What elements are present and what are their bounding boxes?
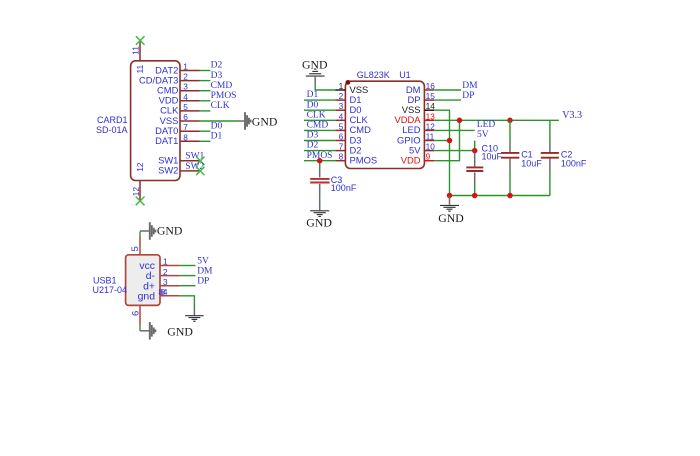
- svg-text:6: 6: [183, 112, 188, 122]
- svg-text:6: 6: [339, 132, 344, 142]
- wire net V3.3 from U1 pin 13: [434, 119, 559, 121]
- svg-text:CMD: CMD: [211, 81, 233, 91]
- CARD1 pin 5 stub: [180, 110, 200, 112]
- svg-text:5: 5: [130, 246, 141, 251]
- USB1 pin 5 stub (top): [139, 236, 141, 255]
- wire ground rail: [450, 195, 550, 197]
- wire net PMOS at CARD1 pin 4: [200, 100, 211, 102]
- svg-text:10: 10: [426, 142, 436, 152]
- U1 pin 11 stub: [424, 140, 434, 142]
- svg-text:7: 7: [183, 122, 188, 132]
- svg-text:100nF: 100nF: [561, 159, 587, 169]
- wire net 5V: [180, 265, 196, 267]
- pin 12 stub (bottom): [139, 181, 141, 201]
- svg-text:DM: DM: [197, 267, 213, 277]
- svg-text:6: 6: [131, 311, 142, 316]
- svg-text:12: 12: [135, 162, 145, 172]
- wire net PMOS at U1 pin 8: [304, 160, 335, 162]
- CARD1 pin 7 stub: [180, 130, 200, 132]
- svg-text:12: 12: [131, 187, 141, 197]
- U1 pin 9 stub: [424, 160, 434, 162]
- wire USB1 pin 5 to GND: [139, 231, 141, 235]
- wire net D2 at CARD1 pin 1: [200, 70, 211, 72]
- U1 pin 3 stub: [335, 109, 345, 111]
- svg-text:LED: LED: [477, 120, 496, 130]
- junction node rail/C10: [472, 193, 478, 199]
- svg-text:GND: GND: [306, 216, 332, 230]
- U1 pin 16 stub: [424, 89, 434, 91]
- wire net D3 at U1 pin 6: [304, 140, 335, 142]
- capacitor C3: [319, 163, 321, 177]
- SD card connector CARD1 body: [131, 61, 180, 181]
- svg-text:D1: D1: [307, 90, 319, 100]
- svg-text:7: 7: [339, 142, 344, 152]
- svg-text:D2: D2: [307, 141, 319, 151]
- wire net DM: [434, 89, 461, 91]
- svg-text:3: 3: [183, 82, 188, 92]
- U1 pin-1 marker dot: [346, 80, 351, 85]
- svg-text:D0: D0: [211, 121, 223, 131]
- USB1 pin 3 stub: [160, 285, 180, 287]
- wire USB1 pin 4 to ground: [180, 296, 195, 306]
- svg-text:DM: DM: [462, 81, 478, 91]
- wire net CMD at U1 pin 5: [304, 129, 335, 131]
- wire net DP: [434, 99, 461, 101]
- wire net DP: [180, 285, 196, 287]
- wire net DM: [180, 275, 196, 277]
- wire net D0 at CARD1 pin 7: [200, 130, 211, 132]
- junction node rail/C1: [507, 193, 513, 199]
- U1 pin 1 stub: [335, 89, 345, 91]
- wire USB1 pin 6 to GND: [139, 326, 141, 331]
- svg-text:2: 2: [339, 91, 344, 101]
- svg-text:4: 4: [183, 92, 188, 102]
- svg-text:11: 11: [135, 65, 145, 74]
- wire net CLK at U1 pin 4: [304, 119, 335, 121]
- wire net D2 at U1 pin 7: [304, 150, 335, 152]
- svg-text:3: 3: [163, 277, 168, 287]
- USB1 pin 2 stub: [160, 275, 180, 277]
- U1 pin 10 stub: [424, 150, 434, 152]
- svg-text:PMOS: PMOS: [211, 91, 237, 101]
- wire net CLK at CARD1 pin 5: [200, 110, 211, 112]
- svg-text:10uF: 10uF: [521, 159, 542, 169]
- svg-text:U1: U1: [399, 70, 411, 80]
- svg-text:100nF: 100nF: [331, 183, 357, 193]
- ground GND (arrow style) below USB1: [149, 322, 151, 340]
- junction node rail/GND: [447, 193, 453, 199]
- CARD1 pin 2 stub: [180, 80, 200, 82]
- svg-text:5V: 5V: [197, 257, 209, 267]
- wire net CMD at CARD1 pin 3: [200, 90, 211, 92]
- CARD1 pin 6 stub: [180, 120, 200, 122]
- svg-text:CLK: CLK: [307, 110, 326, 120]
- svg-text:15: 15: [426, 91, 436, 101]
- svg-text:1: 1: [163, 257, 168, 267]
- svg-text:11: 11: [426, 132, 435, 142]
- svg-text:3: 3: [339, 101, 344, 111]
- wire net 5V at U1 pin 10: [434, 150, 474, 152]
- svg-text:DAT1: DAT1: [155, 135, 178, 146]
- U1 pin 13 stub: [424, 119, 434, 121]
- svg-text:GL823K: GL823K: [357, 70, 390, 80]
- wire stub to 5V label: [474, 141, 476, 151]
- CARD1 pin 1 stub: [180, 70, 200, 72]
- wire net LED: [434, 129, 474, 131]
- svg-text:DP: DP: [462, 91, 474, 101]
- no-connect X SW2: [196, 167, 204, 175]
- ground GND (arrow style) above USB1: [140, 230, 150, 232]
- wire C10 to ground rail: [474, 187, 476, 196]
- svg-text:14: 14: [426, 101, 436, 111]
- junction node GPIO/VSS: [447, 138, 453, 144]
- svg-text:5V: 5V: [477, 130, 489, 140]
- op-amp U1 body (GL823K): [345, 81, 424, 168]
- svg-text:CMD: CMD: [307, 121, 329, 131]
- wire C3 to ground: [319, 194, 321, 200]
- svg-text:8: 8: [339, 152, 344, 162]
- svg-text:GND: GND: [167, 325, 193, 339]
- no-connect X SW1: [196, 157, 204, 165]
- junction node PMOS/C3: [317, 158, 323, 164]
- wire net D3 at CARD1 pin 2: [200, 80, 211, 82]
- no-connect X pin 12: [136, 197, 145, 206]
- CARD1 pin 3 stub: [180, 90, 200, 92]
- wire net D1 at CARD1 pin 8: [200, 140, 211, 142]
- svg-text:4: 4: [339, 111, 344, 121]
- junction node 5V/C10: [472, 148, 478, 154]
- svg-text:SW2: SW2: [158, 165, 178, 176]
- svg-text:CLK: CLK: [211, 101, 230, 111]
- svg-text:9: 9: [426, 152, 431, 162]
- svg-text:5: 5: [183, 102, 188, 112]
- wire U1 pin 9 VDD to VDDA: [434, 120, 459, 160]
- wire U1 pin 14 VSS to ground rail: [434, 110, 449, 195]
- svg-text:PMOS: PMOS: [350, 155, 378, 166]
- svg-text:VDD: VDD: [401, 155, 421, 166]
- svg-text:gnd: gnd: [138, 291, 156, 302]
- U1 pin 8 stub: [335, 160, 345, 162]
- svg-text:2: 2: [183, 72, 188, 82]
- wire CARD1 pin 6 to GND: [200, 120, 238, 122]
- svg-text:D0: D0: [307, 100, 319, 110]
- ground GND below rail: [449, 196, 451, 205]
- svg-text:D1: D1: [211, 132, 223, 142]
- svg-text:GND: GND: [252, 114, 278, 128]
- capacitor C10: [474, 153, 476, 166]
- capacitor C1: [509, 120, 511, 142]
- U1 pin 14 stub: [424, 109, 434, 111]
- svg-text:2: 2: [163, 267, 168, 277]
- ground GND (arrow style) at CARD1 pin 6: [238, 120, 246, 122]
- capacitor C2: [549, 120, 551, 142]
- svg-text:D3: D3: [307, 131, 319, 141]
- USB1 pin 6 stub (bottom): [139, 305, 141, 326]
- wire net D0 at U1 pin 3: [304, 109, 335, 111]
- svg-text:8: 8: [183, 132, 188, 142]
- svg-text:DP: DP: [197, 277, 209, 287]
- USB connector USB1 body: [126, 255, 160, 306]
- svg-text:13: 13: [426, 111, 436, 121]
- USB1 pin 4 stub: [160, 295, 180, 297]
- U1 pin 4 stub: [335, 119, 345, 121]
- svg-text:12: 12: [426, 121, 436, 131]
- U1 pin 5 stub: [335, 129, 345, 131]
- svg-text:5: 5: [339, 121, 344, 131]
- svg-text:D3: D3: [211, 71, 223, 81]
- CARD1 pin SW1 stub: [180, 160, 200, 162]
- svg-text:1: 1: [339, 81, 344, 91]
- svg-text:10uF: 10uF: [482, 151, 503, 161]
- U1 pin 6 stub: [335, 140, 345, 142]
- svg-text:CARD1: CARD1: [97, 115, 128, 125]
- pin 11 stub (top): [139, 41, 141, 61]
- USB1 pin 1 stub: [160, 265, 180, 267]
- U1 pin 15 stub: [424, 99, 434, 101]
- U1 pin 2 stub: [335, 99, 345, 101]
- wire U1 pin 11 GPIO to ground: [434, 140, 449, 142]
- CARD1 pin SW2 stub: [180, 170, 200, 172]
- ground (earth) at USB1 pin 4: [193, 306, 195, 315]
- svg-text:U217-04: U217-04: [93, 285, 128, 295]
- junction node VDD/VDDA: [457, 118, 463, 124]
- svg-text:GND: GND: [438, 211, 464, 225]
- svg-text:V3.3: V3.3: [562, 110, 582, 121]
- junction node V3.3/C1: [507, 118, 513, 124]
- svg-text:GND: GND: [157, 224, 183, 238]
- CARD1 pin 8 stub: [180, 140, 200, 142]
- CARD1 pin 4 stub: [180, 100, 200, 102]
- wire net D1 at U1 pin 2: [304, 99, 335, 101]
- svg-text:1: 1: [183, 62, 188, 72]
- svg-text:SD-01A: SD-01A: [96, 125, 128, 135]
- svg-text:D2: D2: [211, 61, 223, 71]
- ground GND below C3: [319, 201, 321, 211]
- wire GND to U1 pin 1: [315, 85, 335, 90]
- U1 pin 7 stub: [335, 150, 345, 152]
- svg-text:11: 11: [131, 46, 141, 55]
- svg-text:16: 16: [426, 81, 436, 91]
- no-connect X pin 11: [136, 36, 145, 45]
- U1 pin 12 stub: [424, 129, 434, 131]
